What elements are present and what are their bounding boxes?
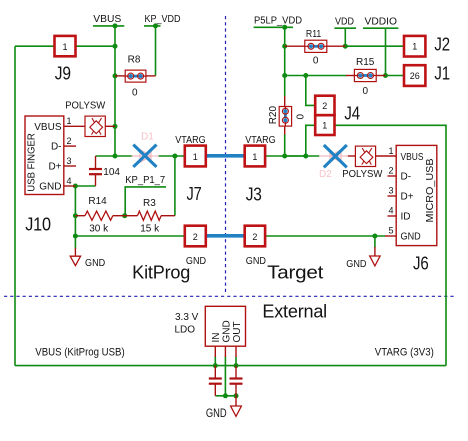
junction R20 at VTARG: [282, 154, 287, 159]
svg-text:3: 3: [388, 186, 393, 196]
svg-text:2: 2: [67, 136, 72, 146]
wire R15 right stub: [376, 75, 385, 77]
svg-text:R11: R11: [306, 29, 322, 40]
svg-text:D-: D-: [401, 172, 412, 183]
pin 5 stub micro USB: [385, 235, 396, 237]
wire LDO GND lead lower: [224, 357, 226, 396]
wire J4 pin1 connection: [306, 125, 315, 156]
junction VDD R11 right: [343, 44, 348, 49]
svg-text:KitProg: KitProg: [132, 263, 190, 283]
junction J7 pin1 node: [172, 154, 177, 159]
svg-text:OUT: OUT: [232, 321, 243, 342]
wire POLYSW2 to J6 pin1 stub: [376, 155, 397, 157]
wire P5LP_VDD vertical lower (R20 to VTARG): [284, 134, 286, 156]
junction J4 pin1 at VTARG: [303, 154, 308, 159]
wire J9 left: [15, 45, 55, 47]
svg-text:15 k: 15 k: [140, 223, 160, 234]
connector J3 pin2 box: [245, 226, 265, 247]
svg-text:3.3 V: 3.3 V: [175, 312, 199, 323]
connector J10 USB FINGER body: [25, 116, 72, 195]
wire VBUS vertical: [114, 26, 116, 156]
wire VTARG across R20 and J4 taps: [285, 155, 306, 157]
wire bottom caps to GND: [215, 395, 236, 397]
junction POLYSW tap: [113, 124, 118, 129]
svg-text:J2: J2: [434, 34, 450, 54]
diode D2 (not fitted, faint): [319, 150, 348, 162]
svg-text:D+: D+: [48, 162, 61, 173]
svg-text:KP_VDD: KP_VDD: [145, 14, 181, 25]
junction VBUS label anchor: [113, 23, 118, 28]
pin 2 stub USB finger: [64, 145, 76, 147]
svg-text:VBUS (KitProg USB): VBUS (KitProg USB): [35, 346, 124, 358]
svg-text:LDO: LDO: [175, 325, 196, 336]
pin 1 stub USB finger to POLYSW: [64, 125, 85, 127]
svg-text:KP_P1_7: KP_P1_7: [125, 175, 165, 186]
LDO GND lead upper: [224, 346, 226, 357]
junction J6 pin5 GND tap: [372, 234, 377, 239]
svg-text:VTARG (3V3): VTARG (3V3): [375, 347, 434, 359]
capacitor bottom right: [230, 379, 243, 384]
svg-text:MICRO_USB: MICRO_USB: [425, 158, 436, 222]
wire GND lead right symbol: [374, 247, 376, 256]
wire rail2 left segment: [285, 75, 347, 77]
svg-text:J4: J4: [344, 104, 360, 124]
connector J3 pin1 box: [245, 146, 265, 167]
wire rail2 VDDIO to J1: [386, 75, 405, 77]
wire R20 top lead: [284, 96, 286, 107]
svg-text:R8: R8: [128, 55, 141, 66]
wire VDDIO label tick: [363, 27, 398, 29]
svg-text:1: 1: [193, 152, 198, 162]
connector J7 pin2 box: [185, 226, 206, 247]
svg-text:GND: GND: [39, 182, 61, 193]
wire VBUS label tick: [93, 25, 124, 27]
svg-text:1: 1: [388, 146, 393, 156]
wire D2 to POLYSW2 stub: [348, 155, 356, 157]
wire R15 left stub: [346, 75, 354, 77]
svg-text:3: 3: [67, 156, 72, 166]
wire R14 right lead: [113, 215, 125, 217]
wire left VBUS vertical rail: [14, 46, 16, 365]
svg-text:J7: J7: [187, 184, 202, 204]
junction bottom GND symbol node: [234, 393, 239, 398]
pin 3 stub USB finger: [64, 165, 76, 167]
svg-text:J3: J3: [246, 184, 262, 204]
bottom GND symbol lead: [235, 396, 237, 406]
wire J9 right to VBUS net: [76, 45, 116, 47]
wire R11 left stub: [285, 45, 305, 47]
ground symbol left: [70, 256, 80, 265]
wire VTARG horizontal right of D1 to J7 pin1: [158, 155, 185, 157]
junction LDO OUT at rail: [234, 363, 239, 368]
region boundary dashed horizontal (External divider): [4, 295, 456, 297]
capacitor C-left top lead: [214, 366, 216, 378]
jumper R8: [125, 70, 146, 82]
wire POLYSW1 right stub: [105, 125, 115, 127]
svg-text:R20: R20: [268, 106, 279, 125]
junction VDDIO R15 right: [383, 73, 388, 78]
wire P5LP_VDD vertical upper: [284, 27, 286, 96]
connector J9 pin box: [55, 36, 76, 56]
pin 2 stub micro USB: [388, 175, 397, 177]
svg-text:4: 4: [388, 206, 393, 216]
wire KP_P1_7 label tick: [125, 187, 166, 216]
svg-text:D1: D1: [141, 132, 154, 143]
junction USB finger pin4: [73, 184, 78, 189]
svg-text:0: 0: [296, 114, 307, 120]
svg-text:1: 1: [322, 121, 327, 131]
svg-text:1: 1: [62, 42, 67, 52]
svg-text:R14: R14: [88, 196, 107, 207]
capacitor 104 bottom lead: [95, 174, 97, 186]
wire VTARG horizontal left of D1: [96, 155, 133, 157]
junction LDO IN at rail: [213, 363, 218, 368]
svg-text:USB FINGER: USB FINGER: [27, 133, 38, 192]
capacitor bottom left: [209, 379, 222, 384]
svg-text:R15: R15: [356, 57, 375, 68]
no-fit cross over D1: [133, 145, 156, 167]
wire R11 right stub: [327, 45, 346, 47]
wire R20 bottom lead: [284, 126, 286, 134]
svg-text:GND: GND: [346, 259, 366, 270]
wire P5LP_VDD label tick: [254, 26, 293, 28]
svg-text:VBUS: VBUS: [401, 152, 424, 163]
bus wire J7 pin2 to J3 pin2: [206, 234, 244, 238]
svg-text:VTARG: VTARG: [245, 135, 275, 146]
LDO IN lead upper: [214, 346, 216, 357]
svg-text:VBUS: VBUS: [93, 14, 121, 25]
resistor R14 zigzag: [85, 211, 113, 220]
svg-text:1: 1: [67, 116, 72, 126]
wire R8 left stub: [115, 75, 125, 77]
svg-text:ID: ID: [401, 212, 411, 223]
junction capacitor 104 tap: [113, 154, 118, 159]
svg-text:2: 2: [388, 166, 393, 176]
svg-text:J9: J9: [55, 64, 71, 84]
pin 4 stub USB finger: [64, 185, 76, 187]
svg-text:2: 2: [322, 101, 327, 111]
svg-text:VTARG: VTARG: [175, 135, 205, 146]
no-fit cross over D2: [324, 145, 347, 167]
wire LDO OUT lead lower: [235, 357, 237, 366]
junction R8 tap: [113, 73, 118, 78]
wire bottom rail to LDO and VTARG: [15, 365, 446, 367]
connector J2 pin box: [404, 36, 425, 57]
pin 3 stub micro USB: [388, 195, 397, 197]
svg-text:R3: R3: [143, 198, 156, 209]
svg-text:30 k: 30 k: [89, 223, 109, 234]
wire right VTARG vertical rail: [335, 125, 447, 365]
svg-text:D2: D2: [319, 169, 332, 180]
junction J4 pin2 drop: [303, 73, 308, 78]
svg-text:POLYSW: POLYSW: [342, 169, 383, 180]
svg-text:External: External: [262, 301, 327, 321]
wire vertical from J7 pin1 node down to R3: [174, 156, 176, 216]
capacitor C-right bottom lead: [235, 384, 237, 396]
wire KP_VDD vertical: [155, 26, 157, 76]
svg-text:POLYSW: POLYSW: [65, 100, 106, 111]
capacitor C-right top lead: [235, 366, 237, 378]
ground symbol right (J6): [370, 256, 380, 266]
bus wire J7 pin1 to J3 pin1: [206, 154, 244, 158]
connector J1 pin box: [404, 65, 425, 86]
wire J3 pin1 to D2: [265, 155, 319, 157]
wire VDD vertical: [344, 28, 346, 46]
ground symbol bottom: [231, 406, 242, 416]
wire R14 left lead: [75, 215, 85, 217]
junction KP_VDD label anchor: [153, 23, 158, 28]
svg-text:Target: Target: [267, 263, 323, 283]
svg-text:GND: GND: [85, 258, 105, 269]
capacitor 104: [89, 169, 102, 174]
capacitor 104 top lead: [95, 156, 97, 168]
wire rail1 VDD to J2: [345, 45, 404, 47]
junction GND row left: [73, 234, 78, 239]
junction rail2 left: [282, 73, 287, 78]
svg-text:J1: J1: [434, 64, 450, 84]
svg-text:0: 0: [363, 86, 369, 97]
svg-text:VDD: VDD: [335, 17, 354, 28]
svg-text:VBUS: VBUS: [34, 122, 62, 133]
svg-text:D+: D+: [401, 192, 414, 203]
wire VDDIO vertical: [385, 28, 387, 75]
wire VDD label tick: [334, 27, 356, 29]
wire GND net vertical left: [74, 186, 76, 249]
svg-text:1: 1: [252, 152, 257, 162]
svg-text:GND: GND: [401, 232, 421, 243]
svg-text:P5LP_VDD: P5LP_VDD: [254, 16, 302, 27]
capacitor C-left bottom lead: [214, 384, 216, 396]
regulator U 3.3V LDO body: [205, 306, 245, 346]
svg-text:GND: GND: [206, 406, 227, 420]
junction R11 left: [282, 44, 287, 49]
connector J4 pin1 box: [315, 115, 334, 135]
jumper R15: [354, 69, 376, 81]
svg-text:IN: IN: [211, 333, 222, 343]
wire LDO IN lead lower: [214, 357, 216, 366]
svg-text:104: 104: [103, 167, 120, 178]
svg-text:GND: GND: [221, 320, 232, 342]
svg-text:26: 26: [410, 71, 420, 81]
svg-text:5: 5: [388, 226, 393, 236]
junction R14 R3 KP_P1_7 node: [122, 213, 127, 218]
jumper R11: [305, 40, 327, 52]
resistor R3 zigzag: [137, 211, 161, 220]
wire GND lead left symbol: [74, 248, 76, 256]
wire R3 right lead: [161, 215, 175, 217]
polyswitch POLYSW2: [355, 146, 375, 166]
connector J7 pin1 box: [185, 146, 206, 167]
region boundary dashed vertical (KitProg/Target divider): [225, 16, 227, 294]
pin 4 stub micro USB: [388, 215, 397, 217]
wire J3 pin2 to J6 pin5 GND: [265, 235, 385, 237]
wire KP_VDD label tick: [144, 25, 161, 27]
connector J4 pin2 box: [315, 96, 334, 116]
wire GND row to J7 pin2: [75, 235, 184, 237]
diode D1 (not fitted, faint): [132, 150, 160, 162]
svg-text:0: 0: [132, 88, 138, 99]
junction P5LP_VDD label anchor: [282, 25, 287, 30]
svg-text:D-: D-: [51, 142, 62, 153]
junction GND lead bottom: [223, 393, 228, 398]
wire R8 right stub: [146, 75, 156, 77]
svg-text:J6: J6: [413, 253, 429, 273]
wire GND net pin4 horizontal to capacitor: [75, 185, 95, 187]
svg-text:GND: GND: [246, 256, 266, 267]
svg-text:4: 4: [67, 176, 72, 186]
LDO OUT lead upper: [235, 346, 237, 357]
polyswitch POLYSW1: [85, 116, 105, 136]
jumper R20 (vertical): [279, 107, 291, 127]
wire GND drop right of J6: [374, 236, 376, 248]
connector J6 MICRO_USB body: [388, 145, 436, 245]
svg-text:VDDIO: VDDIO: [365, 17, 398, 28]
wire R3 left lead: [125, 215, 138, 217]
junction J9 at VBUS: [113, 44, 118, 49]
svg-text:2: 2: [193, 232, 198, 242]
svg-text:2: 2: [252, 232, 257, 242]
svg-text:J10: J10: [25, 215, 51, 235]
svg-text:0: 0: [313, 55, 319, 66]
wire J4 pin2 connection: [306, 76, 315, 106]
svg-text:1: 1: [412, 42, 417, 52]
junction R14 left: [73, 213, 78, 218]
